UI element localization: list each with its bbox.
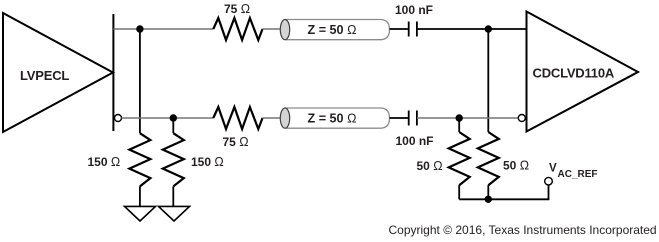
svg-text:75 Ω: 75 Ω	[223, 135, 249, 149]
svg-text:Z = 50 Ω: Z = 50 Ω	[308, 23, 357, 37]
resistor R1 75 ohm (top series)	[213, 18, 262, 40]
value label 150 ohm left	[88, 155, 121, 169]
wire: OUT- from bubble to R2	[122, 117, 214, 119]
svg-text:75 Ω: 75 Ω	[224, 2, 250, 16]
svg-text:50 Ω: 50 Ω	[503, 159, 529, 173]
driver U1 LVPECL triangle	[3, 13, 113, 132]
node B junction dot (bottom output)	[170, 114, 177, 121]
ground (left)	[125, 206, 156, 221]
value label 75 ohm top	[224, 2, 250, 16]
svg-text:LVPECL: LVPECL	[20, 68, 69, 83]
receiver U2 CDCLVD110A triangle	[527, 12, 639, 132]
resistor R6 50 ohm (right)	[478, 132, 499, 199]
node E junction dot (R6 bottom)	[485, 196, 492, 203]
wire: OUT+ to R1	[113, 28, 213, 30]
wire: R1 to T1	[263, 28, 286, 30]
value label 100 nF top	[395, 3, 433, 17]
svg-text:V: V	[549, 163, 557, 175]
wire: C2 to receiver IN- bubble	[417, 117, 518, 119]
svg-text:Copyright © 2016, Texas Instru: Copyright © 2016, Texas Instruments Inco…	[389, 223, 657, 237]
value label 75 ohm bottom	[223, 135, 249, 149]
wire: node A down to R3	[139, 29, 141, 133]
terminal VAC_REF open circle	[545, 177, 553, 185]
ground (right)	[159, 206, 190, 221]
transmission line T2 Z=50 ohm (bottom)	[280, 108, 389, 128]
wire: T1 to C1	[390, 28, 409, 30]
svg-text:50 Ω: 50 Ω	[417, 159, 443, 173]
resistor R2 75 ohm (bottom series)	[213, 107, 262, 129]
resistor R4 150 ohm (right pulldown)	[163, 133, 184, 206]
wire: R2 to T2	[263, 117, 286, 119]
svg-text:100 nF: 100 nF	[395, 3, 433, 17]
node C junction dot (top right)	[485, 25, 492, 32]
svg-text:Z = 50 Ω: Z = 50 Ω	[308, 112, 357, 126]
net label VAC_REF	[549, 163, 598, 180]
svg-text:CDCLVD110A: CDCLVD110A	[533, 66, 615, 81]
wire: node C down to R6	[487, 29, 489, 132]
svg-text:150 Ω: 150 Ω	[191, 155, 224, 169]
value label 50 ohm right	[503, 159, 529, 173]
wire: node B down to R4	[172, 118, 174, 133]
copyright note	[389, 223, 657, 237]
wire: T2 to C2	[390, 117, 409, 119]
resistor R5 50 ohm (left)	[449, 132, 470, 199]
receiver inverting input bubble	[518, 115, 525, 122]
driver inverted output bubble	[115, 115, 122, 122]
transmission line T1 Z=50 ohm (top)	[280, 20, 389, 40]
capacitor C1 100 nF (top)	[409, 22, 417, 37]
svg-text:150 Ω: 150 Ω	[88, 155, 121, 169]
wire: resistor common to VAC_REF terminal	[459, 185, 548, 199]
svg-text:100 nF: 100 nF	[396, 134, 434, 148]
svg-text:AC_REF: AC_REF	[558, 169, 598, 180]
node A junction dot (top output)	[136, 25, 143, 32]
wire: C1 to receiver IN+	[417, 28, 527, 30]
value label 150 ohm right	[191, 155, 224, 169]
driver output pin bar	[112, 14, 114, 131]
value label 100 nF bottom	[396, 134, 434, 148]
capacitor C2 100 nF (bottom)	[409, 111, 417, 126]
wire: node D down to R5	[458, 118, 460, 132]
node D junction dot (bottom right)	[456, 114, 463, 121]
resistor R3 150 ohm (left pulldown)	[129, 133, 150, 206]
value label 50 ohm left	[417, 159, 443, 173]
